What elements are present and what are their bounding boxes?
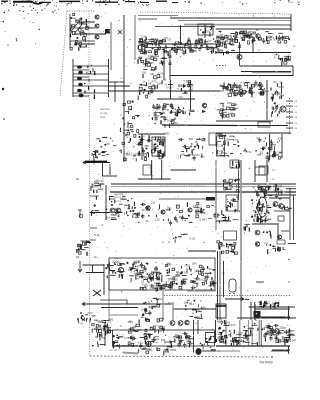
wire [234,179,240,181]
resistor R535 [276,248,278,251]
resistor R538 [264,301,266,304]
resistor R447 [158,277,160,280]
resistor R181 [223,83,225,87]
resistor R333 [90,186,92,191]
diode D37 [249,38,250,39]
electrolytic capacitor C33 [196,348,202,355]
capacitor C86 [202,266,205,272]
wire [246,34,251,36]
resistor R162 [146,95,148,98]
resistor R545 [265,301,267,305]
wire [93,151,98,153]
capacitor C30 [254,81,257,87]
wire [94,182,99,184]
resistor R635 [167,348,169,353]
wire [192,309,198,311]
wire [95,156,98,158]
resistor R579 [118,344,120,349]
resistor R605 [144,340,146,344]
svg-text:2.2k: 2.2k [218,144,224,148]
transistor Q10 [118,267,123,272]
resistor R313 [202,139,205,141]
diode D333 [208,345,209,346]
resistor R441 [112,271,114,274]
resistor R431 [78,244,80,247]
svg-text:220: 220 [279,326,284,330]
diode D292 [113,335,115,337]
wire [140,272,144,274]
resistor R225 [221,114,223,116]
resistor R78 [148,51,151,53]
svg-text:+: + [244,300,246,304]
resistor R592 [146,351,149,353]
wire [216,220,231,222]
wire (bus) [225,320,227,346]
diode D200 [261,221,263,223]
wire [293,195,295,240]
diode D20 [162,42,163,43]
diode D6 [70,43,71,44]
resistor R522 [232,247,235,250]
capacitor C57 [182,145,188,148]
wire [211,349,216,351]
wire [233,219,239,221]
diode D139 [115,212,117,214]
wire [111,214,116,216]
wire [166,275,170,277]
resistor R516 [217,241,220,243]
resistor R583 [136,324,139,326]
wire [171,119,176,121]
wire [216,65,226,67]
resistor R85 [140,39,142,41]
resistor R503 [157,319,159,322]
svg-text:2.2k: 2.2k [154,337,160,341]
diode D121 [153,148,155,150]
shield boundary (tuner) [60,11,95,99]
svg-text:560: 560 [131,337,136,340]
resistor R81 [145,37,147,40]
diode D217 [127,262,129,264]
wire [73,65,109,67]
wire [170,17,291,19]
resistor R624 [230,333,232,337]
diode D346 [261,328,263,330]
wire [212,282,216,284]
resistor R660 [285,338,287,342]
resistor R28 [94,71,96,75]
IC U10 [224,231,237,240]
wire [263,304,266,306]
wire [137,273,142,275]
wire [104,322,106,346]
svg-text:5p: 5p [157,278,161,282]
wire [145,145,149,147]
diode D144 [185,220,186,221]
resistor R65 [215,51,217,54]
wire [102,152,105,154]
wire [124,129,129,131]
diode D147 [188,215,190,217]
wire [135,216,139,218]
resistor R136 [275,36,277,39]
wire [167,284,171,286]
diode D46 [141,84,143,86]
diode D33 [250,33,252,35]
resistor R173 [188,81,190,83]
wire [178,236,182,238]
resistor R55 [185,49,187,53]
diode D216 [130,269,132,271]
IC U6 [259,166,268,175]
IC U13 [217,136,225,156]
wire [237,317,296,319]
resistor R129 [222,37,225,39]
svg-text:0.047: 0.047 [228,323,236,327]
resistor R272 [270,145,272,148]
resistor R159 [284,58,287,60]
wire [109,330,113,332]
resistor R335 [116,210,118,214]
resistor R285 [140,139,142,143]
diode D16 [175,47,176,48]
wire [238,160,240,200]
diode D11 [209,26,211,28]
resistor R94 [147,63,150,66]
diode D191 [255,211,257,213]
diode D164 [287,210,288,211]
resistor R491 [202,282,204,285]
resistor R427 [85,240,87,245]
diode D79 [182,113,184,115]
resistor R5 [79,22,81,24]
wire [88,27,93,29]
capacitor C3 [175,49,178,55]
wire [200,212,205,214]
diode D342 [247,339,248,340]
diode D254 [151,301,152,302]
resistor R380 [231,203,233,206]
resistor R355 [218,220,220,223]
wire [190,315,194,317]
resistor R249 [135,158,137,161]
wire [181,151,184,153]
resistor R432 [78,244,80,247]
wire [85,314,88,316]
resistor R203 [270,88,272,91]
svg-text:0.01: 0.01 [173,277,179,281]
diode D65 [160,114,162,116]
resistor R238 [275,106,277,111]
wire [190,110,195,112]
svg-text:220: 220 [155,217,160,221]
wire [237,125,288,127]
wire [110,274,116,276]
diode D179 [229,202,231,204]
wire [143,63,147,65]
resistor R218 [222,113,224,117]
resistor R483 [210,282,213,285]
wire [259,301,262,303]
capacitor C18 [243,32,246,38]
diode D142 [124,213,125,214]
diode D294 [116,335,118,337]
resistor R13 [70,48,72,51]
wire [251,343,257,345]
diode D203 [256,219,258,221]
diode D272 [259,302,261,304]
diode D235 [176,283,178,285]
wire [176,274,179,276]
resistor R352 [176,205,179,208]
capacitor C70 [273,184,279,187]
bridge rectifier BR1 [254,311,261,317]
svg-text:47k: 47k [101,336,106,340]
diode D184 [256,191,258,193]
wire [278,57,282,59]
wire [265,194,296,196]
wire [264,90,269,92]
diode D90 [274,112,275,113]
diode D15 [172,47,174,49]
resistor R440 [118,274,120,278]
diode D223 [153,273,154,274]
diode D44 [143,92,145,94]
wire [230,340,233,342]
resistor R316 [202,146,204,149]
diode D208 [80,244,81,245]
svg-text:xx xxx: xx xxx [100,112,108,115]
resistor R135 [278,40,281,43]
svg-text:220: 220 [225,139,230,142]
diode D192 [251,216,253,218]
svg-text:0.047: 0.047 [199,217,207,221]
wire [156,112,160,114]
capacitor C83 [212,282,215,288]
svg-text:47k: 47k [178,95,183,99]
wire [243,338,249,340]
wire [222,111,227,113]
capacitor C8 [163,50,169,53]
resistor R133 [266,36,268,41]
resistor R544 [274,302,276,306]
capacitor C68 [275,193,278,199]
svg-text:0.047: 0.047 [148,305,156,309]
diode D218 [135,266,136,267]
resistor R220 [232,104,235,106]
diode D233 [183,282,184,283]
resistor R366 [126,211,128,214]
resistor R413 [257,216,259,221]
resistor R56 [165,45,167,49]
resistor R12 [72,25,75,27]
wire [109,164,111,175]
wire [272,248,276,250]
svg-text:220: 220 [195,269,200,272]
wire [151,271,157,273]
wire [109,270,115,272]
wire [136,275,139,277]
svg-text:0.01: 0.01 [197,207,202,210]
wire [175,334,179,336]
capacitor C35 [223,86,229,89]
wire [75,21,95,23]
resistor R636 [170,343,172,348]
capacitor C52 [146,139,152,142]
resistor R224 [219,111,221,114]
resistor R279 [159,140,161,145]
diode D78 [178,111,180,113]
resistor R17 [71,30,73,33]
capacitor C36 [235,84,238,90]
wire [155,147,159,149]
resistor R630 [285,330,287,334]
resistor R621 [216,339,218,342]
resistor R59 [144,46,147,48]
resistor R290 [139,142,142,145]
resistor R117 [251,39,253,43]
wire [92,212,95,214]
transistor Q101 [95,24,99,28]
capacitor C103 [218,335,224,338]
resistor R160 [278,55,280,60]
wire [273,334,278,336]
resistor R161 [281,61,283,66]
resistor R263 [225,134,227,137]
pin 2 [286,105,293,107]
capacitor C15 [234,34,237,40]
resistor R593 [145,329,147,332]
wire [189,221,192,223]
resistor R18 [78,47,80,51]
resistor R508 [138,320,140,324]
resistor R130 [242,38,244,40]
diode D266 [193,300,195,302]
resistor R663 [236,342,238,345]
resistor R662 [236,343,238,346]
resistor R454 [157,272,160,275]
diode D132 [110,138,111,139]
wire [235,178,240,180]
diode D256 [145,302,146,303]
capacitor C2 [187,37,190,43]
diode D174 [232,167,234,169]
svg-text:10k: 10k [141,308,146,312]
wire [98,153,101,155]
resistor R501 [80,316,82,319]
capacitor C49 [273,150,276,156]
resistor R32 [94,89,96,93]
svg-text:5p: 5p [163,107,167,111]
resistor R1 [70,24,72,28]
resistor R486 [190,268,192,271]
svg-text:47: 47 [136,264,140,268]
wire [112,270,116,272]
transistor Q21 [161,210,165,214]
wire [138,18,157,20]
svg-text:TC: TC [168,301,172,305]
resistor R604 [144,334,146,336]
resistor R19 [80,46,82,49]
resistor R179 [231,85,234,88]
wire [278,32,283,34]
diode D291 [113,336,114,337]
capacitor C32 [231,86,234,92]
capacitor C71 [150,277,153,283]
resistor R524 [220,243,222,245]
resistor R287 [157,139,159,142]
resistor R171 [180,88,182,91]
wire [239,42,241,66]
diode D165 [287,206,288,207]
wire [249,36,254,38]
resistor R144 [229,42,231,45]
capacitor C98 [187,342,193,345]
capacitor C50 [260,147,266,150]
diode D28 [142,44,143,45]
wire (bus) [261,320,263,346]
resistor R520 [234,245,236,248]
wire [260,203,263,205]
diode D131 [101,146,103,148]
wire [152,305,156,307]
resistor R633 [289,335,291,340]
resistor R403 [261,208,263,212]
resistor R649 [278,338,280,343]
wire [145,348,151,350]
wire [151,87,154,89]
diode D181 [234,199,236,201]
transistor Q4 [202,103,206,107]
resistor R531 [282,247,284,250]
diode D288 [105,325,107,327]
capacitor C37 [258,82,261,88]
resistor R546 [264,302,266,306]
wire [230,251,234,253]
wire [217,251,219,320]
pin 5 [286,122,293,124]
wire [159,62,162,64]
resistor R550 [103,326,105,331]
resistor R600 [145,336,147,339]
diode D80 [178,112,179,113]
resistor R199 [276,84,278,87]
wire [252,37,254,52]
wire [183,278,188,280]
shield boundary (dashed) [164,295,291,297]
wire [188,250,216,252]
diode D71 [156,104,158,106]
resistor R519 [234,252,237,254]
svg-text:TM-5409: TM-5409 [259,361,273,365]
diode D21 [202,110,206,113]
diode D240 [191,274,192,275]
svg-text:xxx xx: xxx xx [114,196,122,199]
svg-text:560: 560 [200,155,205,159]
resistor R310 [158,154,160,158]
resistor R365 [133,202,135,206]
resistor R68 [144,50,146,54]
wire [90,227,97,229]
IC U4 (detector) [226,195,238,211]
resistor R562 [108,330,110,333]
electrolytic capacitor C31 [78,261,82,272]
resistor R33 [92,68,94,72]
wire (bus) [251,320,253,346]
transistor Q1 [256,34,260,38]
svg-text:0.047: 0.047 [123,151,130,155]
capacitor C33 [258,91,264,94]
